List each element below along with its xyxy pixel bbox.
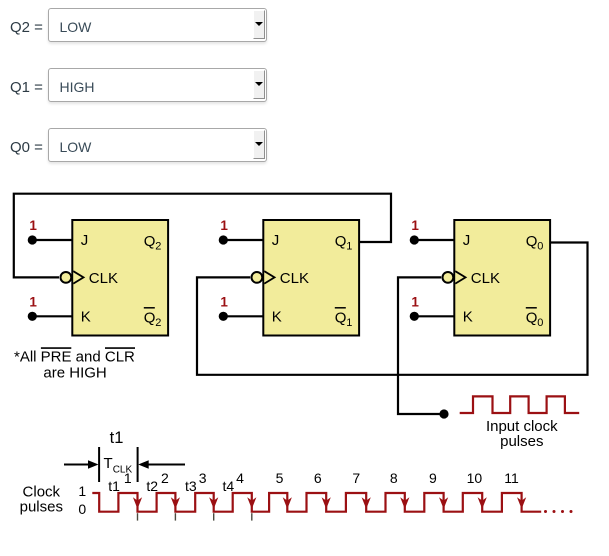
svg-text:1: 1 <box>220 294 228 309</box>
wire: Q1 output to FF1 CLK (top feedback) <box>14 194 391 278</box>
svg-text:Q: Q <box>526 309 538 326</box>
CLK edge-trigger triangle of FF2 <box>264 271 274 283</box>
svg-text:t2: t2 <box>146 478 158 494</box>
svg-text:J: J <box>81 232 89 249</box>
svg-text:t4: t4 <box>223 478 235 494</box>
logic-1 label on K input of FF1 <box>29 294 37 309</box>
svg-text:J: J <box>272 232 280 249</box>
svg-text:1: 1 <box>411 294 419 309</box>
J input wire of FF3 <box>414 239 454 241</box>
pin label J of FF1 <box>81 232 89 249</box>
output label Q-bar2 of FF1 <box>144 308 162 329</box>
svg-text:8: 8 <box>390 470 398 486</box>
right arrow pointing to period end <box>138 460 185 469</box>
CLK inversion bubble of FF3 <box>443 272 454 283</box>
output label Q0 of FF3 <box>526 233 544 253</box>
logic-1 label on J input of FF2 <box>220 218 228 233</box>
logic-1 label on K input of FF3 <box>411 294 419 309</box>
svg-text:1: 1 <box>346 317 352 329</box>
svg-text:*All PRE and CLR: *All PRE and CLR <box>14 349 135 366</box>
clock waveform trace <box>92 493 541 512</box>
svg-text:0: 0 <box>78 501 86 517</box>
CLK inversion bubble of FF1 <box>61 272 72 283</box>
measurement bar left (start of period t1) <box>98 447 100 482</box>
CLK inversion bubble of FF2 <box>252 272 263 283</box>
K input terminal dot of FF1 <box>28 312 37 321</box>
flip-flop FF2 (Q1) body <box>263 220 359 336</box>
pin label CLK of FF1 <box>89 270 118 287</box>
input clock pulse symbol <box>460 396 580 413</box>
svg-text:1: 1 <box>29 218 37 233</box>
svg-text:1: 1 <box>411 218 419 233</box>
output label Q1 of FF2 <box>335 233 353 253</box>
svg-text:11: 11 <box>504 470 519 486</box>
label: logic level 0 <box>78 501 86 517</box>
svg-text:pulses: pulses <box>20 499 63 516</box>
svg-text:1: 1 <box>29 294 37 309</box>
output label Q2 of FF1 <box>144 233 162 253</box>
falling-edge trigger arrowheads <box>133 497 526 509</box>
dropdown row: state of output Q1 <box>10 79 43 96</box>
svg-text:K: K <box>463 309 473 326</box>
pin label J of FF2 <box>272 232 280 249</box>
svg-text:Q: Q <box>335 309 347 326</box>
output label Q-bar0 of FF3 <box>526 308 544 329</box>
logic-1 label on J input of FF3 <box>411 218 419 233</box>
waveform continuation dots <box>544 510 573 513</box>
svg-text:2: 2 <box>155 241 161 253</box>
CLK edge-trigger triangle of FF3 <box>455 271 465 283</box>
label: big t1 over first clock period <box>110 429 124 447</box>
dropdown row: state of output Q0 <box>10 139 43 156</box>
svg-text:t3: t3 <box>185 478 197 494</box>
svg-text:Q: Q <box>144 233 156 250</box>
measurement bar right (end of period t1) <box>137 447 139 482</box>
svg-text:1: 1 <box>346 241 352 253</box>
svg-text:0: 0 <box>537 241 543 253</box>
clock pulse numbers 1-11 <box>124 470 519 486</box>
dropdown row: state of output Q2 <box>10 19 43 36</box>
svg-text:pulses: pulses <box>500 433 543 450</box>
pin label CLK of FF2 <box>280 270 309 287</box>
input clock terminal dot <box>439 409 448 418</box>
svg-text:5: 5 <box>276 470 284 486</box>
label: Clock pulses (left of waveform) <box>20 484 63 516</box>
J input terminal dot of FF3 <box>410 235 419 244</box>
svg-text:10: 10 <box>467 470 483 486</box>
CLK edge-trigger triangle of FF1 <box>73 271 83 283</box>
flip-flop FF3 (Q0) body <box>454 220 550 336</box>
svg-text:CLK: CLK <box>280 270 309 287</box>
pin label K of FF3 <box>463 309 473 326</box>
label: logic level 1 <box>78 483 86 499</box>
svg-text:T: T <box>104 455 113 472</box>
pin label CLK of FF3 <box>471 270 500 287</box>
svg-text:7: 7 <box>352 470 360 486</box>
svg-text:Q: Q <box>526 233 538 250</box>
svg-text:1: 1 <box>78 483 86 499</box>
svg-text:9: 9 <box>429 470 437 486</box>
svg-text:t1: t1 <box>108 478 120 494</box>
svg-text:3: 3 <box>199 470 207 486</box>
svg-text:t1: t1 <box>110 429 124 447</box>
svg-text:J: J <box>463 232 471 249</box>
svg-text:CLK: CLK <box>89 270 118 287</box>
J input wire of FF1 <box>32 239 72 241</box>
svg-text:are HIGH: are HIGH <box>43 365 106 382</box>
svg-text:Q: Q <box>144 309 156 326</box>
svg-text:6: 6 <box>314 470 322 486</box>
svg-text:CLK: CLK <box>471 270 500 287</box>
flip-flop FF1 (Q2) body <box>72 220 168 336</box>
svg-text:K: K <box>272 309 282 326</box>
K input wire of FF1 <box>32 315 72 317</box>
period labels t1-t4 <box>108 478 234 494</box>
svg-text:2: 2 <box>155 317 161 329</box>
svg-text:K: K <box>81 309 91 326</box>
svg-text:1: 1 <box>124 470 132 486</box>
wire: Q0 output to FF2 CLK (bottom feedback) <box>197 243 588 375</box>
svg-text:4: 4 <box>236 470 244 486</box>
logic-1 label on K input of FF2 <box>220 294 228 309</box>
period boundary tick marks <box>138 513 252 520</box>
K input terminal dot of FF2 <box>219 312 228 321</box>
K input wire of FF2 <box>223 315 263 317</box>
label: T CLK (clock period) <box>104 455 133 476</box>
left arrow pointing to period start <box>64 460 99 469</box>
pin label K of FF2 <box>272 309 282 326</box>
K input wire of FF3 <box>414 315 454 317</box>
svg-text:2: 2 <box>161 470 169 486</box>
pin label K of FF1 <box>81 309 91 326</box>
K input terminal dot of FF3 <box>410 312 419 321</box>
J input wire of FF2 <box>223 239 263 241</box>
J input terminal dot of FF1 <box>28 235 37 244</box>
svg-text:Q: Q <box>335 233 347 250</box>
svg-text:1: 1 <box>220 218 228 233</box>
output label Q-bar1 of FF2 <box>335 308 353 329</box>
pin label J of FF3 <box>463 232 471 249</box>
logic-1 label on J input of FF1 <box>29 218 37 233</box>
wire: input clock to FF3 CLK <box>398 277 444 414</box>
svg-text:0: 0 <box>537 317 543 329</box>
J input terminal dot of FF2 <box>219 235 228 244</box>
label: Input clock pulses <box>486 418 558 450</box>
note: All PRE and CLR are HIGH <box>14 348 135 381</box>
